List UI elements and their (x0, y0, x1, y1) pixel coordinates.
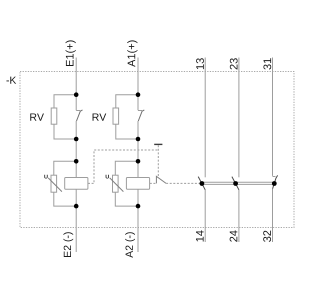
RV branch A: bottom wire (116, 124, 138, 139)
switch contact on A line (blade) (138, 110, 144, 121)
resistor RV (A) (113, 108, 119, 124)
linkage dot contact 23 (233, 181, 238, 186)
wire E1 upper (75, 58, 77, 111)
switch contact on E line (blade) (77, 110, 83, 121)
junction dot E2 (74, 204, 79, 209)
label U (A) (106, 175, 109, 179)
label RV (E) (30, 113, 44, 120)
wire 24 (238, 190, 240, 242)
contact 31-32 blade (NC) (273, 175, 278, 188)
relay boundary -K (dashed frame) (20, 72, 294, 228)
contact 31 seat hook (273, 176, 276, 178)
junction dot A RV bottom (136, 137, 141, 142)
resistor RV (E) (51, 108, 57, 124)
terminal 13 label (196, 58, 204, 69)
label RV (A) (93, 113, 107, 120)
junction dot E RV bottom (74, 137, 79, 142)
wire 23 (238, 58, 240, 178)
RV branch E: top wire (54, 95, 76, 108)
wire 31 (272, 58, 274, 176)
linkage dot contact 31 (272, 181, 277, 186)
label U (E) (44, 175, 47, 179)
terminal 23 label (230, 58, 238, 69)
varistor branch E: top wire (54, 161, 76, 175)
terminal 31 label (263, 58, 271, 69)
varistor U (E) diagonal (48, 178, 62, 192)
varistor branch E: bottom wire (54, 192, 76, 206)
terminal 24 label (230, 230, 238, 241)
node E2(-) label (63, 232, 73, 257)
varistor branch A: top wire (115, 161, 138, 175)
linkage triangle to contact 13 (166, 182, 200, 184)
manual test button bar (154, 143, 162, 145)
node A2(-) label (125, 232, 135, 258)
varistor U (A) body (113, 175, 119, 192)
terminal 32 label (263, 231, 271, 242)
linkage bar lower line (202, 183, 274, 185)
junction dot E1-RV (74, 92, 79, 97)
terminal 14 label (196, 230, 204, 241)
wire A coil to A2 (137, 189, 139, 252)
contact 13-14 blade (NO) (198, 177, 205, 190)
wire A1 middle (137, 121, 139, 178)
linkage bar upper line (202, 181, 274, 183)
node E1(+) label (66, 40, 76, 66)
RV branch A: top wire (116, 95, 138, 108)
wire E coil to E2 (75, 189, 77, 252)
mechanical linkage: E coil to corner (88, 150, 158, 183)
contact 23-24 blade (NO) (232, 177, 239, 190)
wire 13 (204, 58, 206, 178)
varistor U (A) diagonal (110, 178, 124, 192)
junction dot A1-RV (136, 92, 141, 97)
latching triangle (156, 176, 166, 183)
junction dot E varistor top (74, 159, 79, 164)
linkage A coil to triangle (150, 182, 157, 184)
junction dot A varistor top (136, 159, 141, 164)
wire E1 middle (75, 121, 77, 178)
manual test button stem (dashed) (157, 145, 159, 176)
switch contact on E line (hook) (76, 110, 80, 112)
varistor branch A: bottom wire (115, 192, 138, 206)
linkage dot contact 13 (200, 181, 205, 186)
wire A1 upper (137, 58, 139, 111)
RV branch E: bottom wire (54, 124, 76, 139)
label -K (6, 77, 16, 84)
relay coil K (A) (126, 178, 149, 190)
wire 32 (272, 189, 274, 242)
varistor U (E) body (51, 175, 57, 192)
switch contact on A line (hook) (138, 110, 142, 112)
node A1(+) label (127, 40, 137, 67)
relay coil K (E) (65, 178, 88, 190)
wire 14 (204, 190, 206, 242)
junction dot A2 (136, 204, 141, 209)
